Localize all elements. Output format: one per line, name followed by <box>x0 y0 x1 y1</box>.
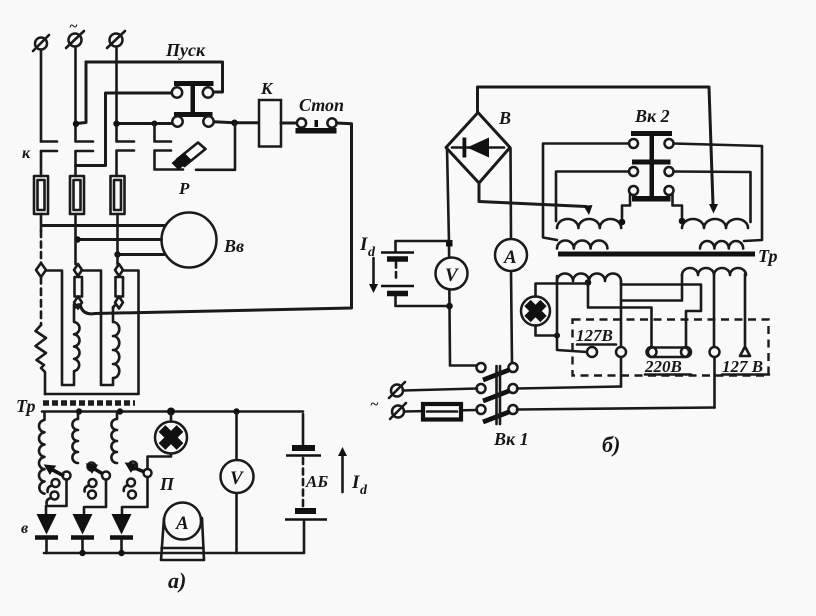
svg-text:А: А <box>503 247 517 268</box>
svg-text:АБ: АБ <box>305 472 328 491</box>
svg-text:V: V <box>445 265 459 286</box>
svg-text:V: V <box>230 468 244 489</box>
svg-text:127В: 127В <box>576 326 613 345</box>
svg-text:~: ~ <box>69 19 78 35</box>
svg-text:127 В: 127 В <box>722 357 763 376</box>
svg-text:А: А <box>175 513 189 534</box>
svg-text:I: I <box>359 234 368 255</box>
svg-text:220В: 220В <box>644 357 682 376</box>
svg-text:Тр: Тр <box>16 396 36 416</box>
svg-text:Стоп: Стоп <box>299 95 344 115</box>
svg-text:В: В <box>498 108 511 128</box>
svg-text:Вв: Вв <box>223 236 244 256</box>
svg-text:к: к <box>22 145 31 162</box>
svg-text:П: П <box>159 474 175 494</box>
svg-text:d: d <box>368 245 376 260</box>
svg-text:Вк 1: Вк 1 <box>493 429 529 449</box>
svg-text:~: ~ <box>370 397 379 413</box>
svg-text:К: К <box>260 79 274 98</box>
svg-text:Вк 2: Вк 2 <box>634 106 670 126</box>
svg-text:d: d <box>360 483 368 498</box>
svg-text:I: I <box>351 472 360 493</box>
svg-text:в: в <box>21 520 28 537</box>
svg-text:б): б) <box>602 432 620 457</box>
svg-text:Тр: Тр <box>758 246 778 266</box>
svg-text:Р: Р <box>178 179 190 198</box>
svg-text:а): а) <box>168 568 186 593</box>
svg-text:Пуск: Пуск <box>165 40 206 60</box>
